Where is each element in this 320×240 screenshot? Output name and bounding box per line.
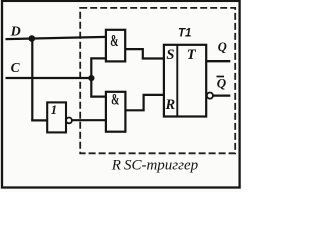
wire C branch down to bottom AND gate (91, 78, 106, 97)
junction dot on D wire (29, 35, 36, 42)
wire bottom AND output to R input (125, 95, 163, 110)
svg-text:&: & (110, 31, 118, 49)
svg-text:C: C (11, 60, 21, 75)
svg-text:S: S (166, 47, 174, 63)
svg-text:&: & (111, 90, 119, 108)
wire to inverter input (31, 119, 47, 121)
flip-flop T1 body (164, 45, 206, 117)
dashed boundary of RSC-trigger (80, 8, 235, 153)
svg-text:R SC-триггер: R SC-триггер (111, 157, 199, 173)
svg-text:R: R (165, 97, 176, 113)
wire C branch up to top AND gate (91, 58, 106, 78)
inverter output bubble (66, 118, 72, 124)
wire D input (6, 37, 107, 39)
wire Q-bar output (213, 94, 230, 96)
svg-text:D: D (10, 25, 21, 40)
inversion bubble on Q-bar output (207, 93, 213, 99)
flip-flop divider (176, 45, 178, 117)
overline of Q-bar (217, 76, 225, 78)
wire C input (6, 77, 93, 79)
inverter gate 1 (47, 102, 66, 132)
junction dot on C wire (88, 75, 94, 81)
wire Q output (206, 60, 230, 62)
wire inverter output to bottom AND gate (72, 119, 106, 121)
svg-text:1: 1 (51, 102, 58, 117)
svg-text:T1: T1 (178, 28, 191, 40)
svg-text:Q: Q (217, 75, 227, 90)
svg-text:T: T (187, 47, 197, 63)
svg-text:Q: Q (218, 40, 227, 54)
AND gate bottom (106, 92, 126, 132)
wire D branch down (31, 39, 33, 121)
AND gate top (106, 30, 125, 62)
wire top AND output to S input (125, 49, 164, 58)
